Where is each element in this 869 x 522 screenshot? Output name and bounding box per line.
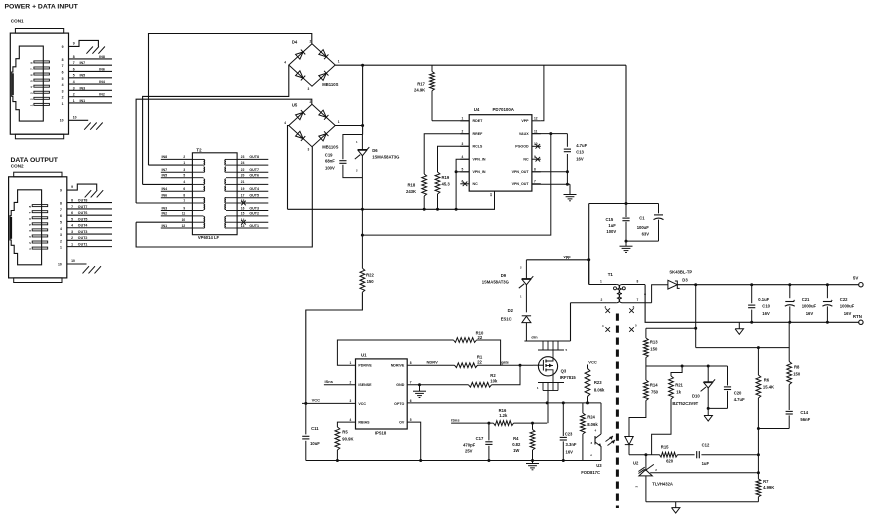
resistor R14 [644, 380, 649, 401]
svg-text:NDRIVE: NDRIVE [391, 364, 405, 368]
wire T1 pin7 [622, 302, 652, 304]
svg-text:VPP: VPP [521, 119, 529, 123]
svg-text:OUT3: OUT3 [78, 230, 88, 234]
svg-text:R6: R6 [764, 377, 770, 382]
T2 pin 12 wire [161, 227, 193, 229]
svg-text:8: 8 [410, 361, 412, 365]
svg-text:10: 10 [71, 259, 75, 263]
chassis ground [95, 266, 102, 273]
D4 diode 2-1 [319, 50, 327, 57]
wire node down to REF [757, 429, 759, 455]
svg-text:PDRIVE: PDRIVE [358, 364, 372, 368]
wire divider top [696, 322, 790, 347]
wire 5V rail [677, 284, 858, 286]
svg-text:C20: C20 [734, 391, 742, 396]
svg-text:3: 3 [308, 148, 310, 152]
T2 right pin wire 17 OUT5 [237, 197, 268, 199]
svg-text:4: 4 [284, 121, 286, 125]
U4 pin 7 VPN_OUT [532, 183, 541, 185]
svg-text:OUT2: OUT2 [249, 212, 259, 216]
svg-text:FOD817C: FOD817C [581, 470, 600, 475]
svg-text:1: 1 [71, 243, 73, 247]
Q3 source pin stubs [538, 382, 564, 384]
svg-text:68nF: 68nF [325, 159, 335, 164]
svg-text:OUT5: OUT5 [78, 217, 88, 221]
bridge rectifier U5 diamond [289, 104, 335, 146]
optocoupler U3 phototransistor [600, 403, 602, 434]
svg-text:8: 8 [71, 199, 73, 203]
svg-text:2: 2 [60, 239, 62, 243]
wire T1 pin7 up to D3 [652, 285, 668, 303]
svg-text:25V: 25V [465, 449, 473, 454]
svg-text:IN2: IN2 [99, 93, 105, 97]
svg-text:RBIAS: RBIAS [358, 421, 370, 425]
resistor R23 [587, 365, 589, 369]
bridge rectifier D4 diamond [289, 44, 335, 86]
U5 diode 3-1 [319, 134, 327, 141]
svg-text:2: 2 [601, 298, 603, 302]
contact pin 8 [34, 61, 50, 63]
svg-text:3: 3 [62, 89, 64, 93]
contact pin 2 [34, 97, 50, 99]
svg-text:C21: C21 [802, 297, 810, 302]
svg-text:1uF: 1uF [702, 461, 710, 466]
svg-text:OUT1: OUT1 [249, 224, 259, 228]
svg-text:2: 2 [62, 96, 64, 100]
wire opto collector branch [583, 402, 601, 404]
svg-text:R7: R7 [763, 479, 769, 484]
svg-text:IN7: IN7 [80, 61, 86, 65]
svg-text:PD70100A: PD70100A [493, 107, 515, 112]
svg-text:10: 10 [182, 218, 186, 222]
T2 pin 7 wire [136, 202, 192, 204]
pin 1 wire net IN1 [69, 102, 113, 104]
svg-text:7: 7 [410, 381, 412, 385]
T2 right pin wire 20 OUT6 [237, 177, 268, 179]
svg-text:11: 11 [534, 130, 538, 134]
svg-text:8: 8 [62, 58, 64, 62]
svg-text:3: 3 [73, 86, 75, 90]
svg-text:OUT7: OUT7 [78, 205, 88, 209]
capacitor C22 [826, 285, 828, 299]
svg-text:15.4K: 15.4K [763, 384, 774, 389]
wire R1 to gate [478, 364, 534, 366]
wire iSns branch to R16 [451, 422, 493, 424]
svg-text:15: 15 [241, 212, 245, 216]
svg-text:D4: D4 [292, 40, 298, 45]
T2 right pin wire 15 OUT2 [237, 215, 268, 217]
svg-text:100uF: 100uF [637, 225, 650, 230]
svg-text:OUT3: OUT3 [249, 206, 259, 210]
svg-text:R22: R22 [366, 272, 374, 277]
svg-text:OUT6: OUT6 [78, 211, 88, 215]
wire C12 to REF node [701, 454, 758, 456]
svg-text:C12: C12 [702, 442, 710, 447]
wire vpp to T1 pin1 [526, 259, 588, 261]
capacitor C10 [751, 285, 753, 304]
T1 secondary winding [619, 285, 622, 303]
svg-text:VCC: VCC [358, 402, 366, 406]
resistor R13 [645, 328, 647, 338]
wire main negative bus [288, 208, 496, 210]
wire opto cathode node [629, 454, 660, 456]
wire second rail R13 feed [646, 327, 696, 329]
svg-text:11: 11 [182, 212, 186, 216]
capacitor C17 [488, 423, 490, 440]
pin 6 wire net IN6 [69, 70, 113, 72]
svg-text:T2: T2 [196, 147, 202, 152]
T2 pin 4 wire [143, 183, 193, 185]
svg-text:D9: D9 [501, 273, 507, 278]
svg-text:OUT2: OUT2 [78, 236, 88, 240]
svg-text:iSns: iSns [451, 417, 460, 422]
svg-text:150: 150 [650, 346, 658, 351]
jack latch bar [12, 73, 14, 95]
svg-text:RREF: RREF [473, 132, 484, 136]
svg-text:ISns: ISns [325, 379, 334, 384]
svg-text:7: 7 [73, 61, 75, 65]
svg-text:45.3: 45.3 [442, 181, 451, 186]
ground [419, 385, 421, 391]
T1 polarity dot [622, 287, 625, 290]
svg-text:10: 10 [73, 116, 77, 120]
svg-text:MB110S: MB110S [322, 145, 338, 150]
svg-text:19: 19 [241, 187, 245, 191]
junction [361, 208, 364, 211]
svg-text:2: 2 [310, 100, 312, 104]
svg-text:vpp: vpp [564, 254, 572, 259]
svg-text:C19: C19 [325, 153, 333, 158]
resistor R5 [335, 427, 340, 450]
svg-text:1uF: 1uF [608, 223, 616, 228]
svg-text:8: 8 [73, 55, 75, 59]
junction [361, 124, 364, 127]
T2 pin 8 wire [161, 197, 193, 199]
svg-text:U2: U2 [633, 460, 639, 465]
svg-text:150: 150 [793, 371, 801, 376]
optocoupler U3 photodiode secondary [628, 435, 630, 437]
U4 NC X marks [463, 182, 468, 187]
junction [361, 64, 364, 67]
T2 winding stub lines [192, 158, 203, 160]
junction VAUX tee [361, 234, 364, 237]
capacitor C13 [566, 134, 568, 147]
U5 diode 4-3 [296, 131, 304, 138]
svg-text:IN3: IN3 [80, 86, 86, 90]
U4 pin 5 VPN_IN [460, 171, 469, 173]
svg-text:C11: C11 [311, 426, 319, 431]
svg-text:2: 2 [183, 155, 185, 159]
wire U1 pin7 GND [407, 384, 468, 386]
svg-text:C1: C1 [639, 215, 645, 220]
svg-text:3: 3 [308, 87, 310, 91]
contact pin 8 [32, 205, 48, 207]
capacitor C1 [658, 204, 660, 214]
svg-text:16: 16 [241, 206, 245, 210]
junction VCC/C11 [304, 402, 307, 405]
svg-text:1k: 1k [676, 389, 681, 394]
wire U2 anode rail [646, 501, 759, 503]
wire ground bus [306, 460, 601, 462]
capacitor C19 [339, 160, 346, 162]
resistor R15 [660, 452, 678, 457]
contact pin 3 [32, 235, 48, 237]
wire U4 pin2 to R18 [424, 134, 469, 174]
pin 7 wire net OUT7 [67, 208, 112, 210]
capacitor C21 [789, 285, 791, 299]
svg-text:10: 10 [58, 262, 62, 266]
svg-text:7: 7 [60, 208, 62, 212]
contact pin 4 [34, 85, 50, 87]
svg-text:4: 4 [462, 155, 464, 159]
svg-text:1: 1 [338, 60, 340, 64]
svg-text:16V: 16V [566, 449, 574, 454]
transistor Q3 IRF7815 [538, 349, 564, 351]
svg-text:C10: C10 [762, 304, 770, 309]
wire R14 to photodiode [629, 401, 646, 435]
U4 pin 2 RREF [460, 133, 469, 135]
capacitor C15 [625, 204, 627, 218]
svg-text:7: 7 [637, 298, 639, 302]
svg-text:8: 8 [534, 168, 536, 172]
U4 pin 3 RCLS [460, 145, 469, 147]
U4 pin 13 bottom stub [494, 191, 496, 209]
svg-text:100V: 100V [325, 166, 335, 171]
pin 3 wire net IN3 [69, 89, 113, 91]
svg-text:9: 9 [73, 42, 75, 46]
svg-text:D2: D2 [508, 308, 514, 313]
T2 right pin wire 23 OUT8 [237, 158, 268, 160]
svg-text:R14: R14 [650, 383, 658, 388]
svg-text:OUT7: OUT7 [249, 168, 259, 172]
svg-text:3: 3 [350, 399, 352, 403]
svg-text:C22: C22 [840, 297, 848, 302]
wire C19/D6 frame [343, 135, 363, 160]
svg-text:5: 5 [462, 168, 464, 172]
svg-text:750: 750 [651, 390, 659, 395]
contact pin 7 [32, 211, 48, 213]
svg-text:C15: C15 [606, 217, 614, 222]
capacitor C11 [305, 403, 307, 434]
pin 5 wire net IN5 [69, 77, 113, 79]
ground [625, 241, 627, 246]
T2 pin 1 wire [149, 164, 193, 166]
svg-text:9: 9 [62, 45, 64, 49]
svg-text:TLVH432A: TLVH432A [652, 481, 673, 486]
svg-text:SK43BL-TP: SK43BL-TP [669, 269, 692, 274]
svg-text:8.06k: 8.06k [594, 387, 605, 392]
svg-text:1: 1 [600, 280, 602, 284]
svg-text:620: 620 [666, 458, 674, 463]
svg-text:24: 24 [241, 161, 245, 165]
D4 diode 4-2 [296, 52, 304, 59]
wire T1 pin8 to lower rail [645, 285, 859, 323]
svg-text:U5: U5 [292, 103, 298, 108]
wire U2 REF [650, 472, 758, 474]
svg-text:CON1: CON1 [11, 19, 24, 24]
wire CON side to D4 top bus [149, 34, 312, 166]
wire R6/C14 bottom node [758, 428, 789, 430]
contact pin 3 [34, 91, 50, 93]
pin 10 wire [67, 263, 87, 265]
svg-text:RDET: RDET [473, 119, 484, 123]
wire T1 pin2 [571, 302, 617, 304]
U4 pin 10 PGOOD [532, 145, 541, 147]
wire U4 pin11 VAUX [532, 133, 568, 135]
pin 2 wire net IN2 [69, 96, 113, 98]
svg-text:3: 3 [183, 168, 185, 172]
svg-text:1W: 1W [513, 448, 519, 453]
svg-text:drn: drn [531, 336, 538, 340]
svg-text:OUT6: OUT6 [249, 174, 259, 178]
wire U1 pin8 NDRIVE [407, 364, 454, 366]
T2 left windings [204, 159, 205, 165]
U4 pin 6 NC [460, 183, 469, 185]
svg-text:R15: R15 [661, 444, 669, 449]
svg-text:1: 1 [338, 120, 340, 124]
resistor R24 [582, 403, 584, 413]
capacitor C12 [696, 451, 698, 458]
svg-text:IN7: IN7 [162, 168, 168, 172]
T2 pin 5 wire [161, 177, 193, 179]
svg-text:2: 2 [350, 381, 352, 385]
svg-text:6: 6 [73, 67, 75, 71]
svg-text:243K: 243K [406, 189, 416, 194]
wire D9 to D2 [525, 285, 527, 313]
svg-text:150: 150 [367, 279, 375, 284]
svg-text:R5: R5 [342, 429, 348, 434]
wire R13 node [646, 365, 728, 367]
wire U1 pin6 OPTO [407, 402, 583, 404]
svg-text:23: 23 [241, 155, 245, 159]
pin 5 wire net OUT5 [67, 220, 112, 222]
svg-text:CON2: CON2 [11, 164, 24, 169]
wire vertical D4/U5 outputs [362, 65, 364, 134]
T2 right pin wire 18 [237, 202, 268, 204]
svg-text:5V: 5V [853, 276, 858, 281]
zener diode D10 [707, 366, 709, 382]
svg-text:VP6014 LF: VP6014 LF [198, 235, 220, 240]
svg-text:63V: 63V [642, 232, 650, 237]
ground [532, 461, 534, 464]
svg-text:21: 21 [241, 180, 245, 184]
svg-text:VAUX: VAUX [519, 132, 529, 136]
svg-text:22: 22 [241, 168, 245, 172]
wire T1 pin8 [622, 284, 645, 286]
svg-text:1: 1 [62, 102, 64, 106]
Q3 drain pin stubs [542, 341, 544, 350]
svg-text:ES1C: ES1C [501, 317, 512, 322]
wire C15/C1 top rail [589, 203, 659, 205]
U4 pin 1 RDET [460, 120, 469, 122]
U4 pin 8 VPN_OUT [532, 171, 541, 173]
svg-text:BZT52C3V9T: BZT52C3V9T [672, 401, 698, 406]
svg-text:7: 7 [71, 205, 73, 209]
svg-text:POWER + DATA INPUT: POWER + DATA INPUT [5, 3, 79, 10]
svg-text:PGOOD: PGOOD [515, 145, 529, 149]
svg-text:4: 4 [60, 227, 62, 231]
contact pin 1 [32, 247, 48, 249]
diode D2 [522, 315, 531, 317]
svg-text:1: 1 [73, 99, 75, 103]
transformer T2 body [192, 153, 237, 235]
svg-text:4: 4 [73, 80, 75, 84]
T2 right pin wire 16 OUT3 [237, 210, 268, 212]
T2 unused pin X marks [241, 201, 246, 206]
pin 4 wire net IN4 [69, 83, 113, 85]
svg-text:4: 4 [71, 224, 73, 228]
pin 4 wire net OUT4 [67, 227, 112, 229]
T1 primary winding [617, 285, 620, 303]
svg-text:IPS18: IPS18 [375, 431, 387, 436]
svg-text:24.9K: 24.9K [414, 88, 425, 93]
svg-text:4: 4 [62, 83, 64, 87]
svg-text:10: 10 [60, 119, 64, 123]
connector body [10, 33, 68, 134]
svg-text:OUT1: OUT1 [78, 243, 88, 247]
svg-text:8: 8 [637, 280, 639, 284]
svg-text:VPN_IN: VPN_IN [473, 158, 486, 162]
pin 10 wire [69, 119, 89, 121]
T2 right pin wire 21 [237, 183, 268, 185]
svg-text:VCC: VCC [312, 398, 321, 403]
U4 pin 11 VAUX [532, 133, 541, 135]
svg-text:3: 3 [462, 142, 464, 146]
svg-text:R8: R8 [794, 365, 800, 370]
svg-text:4.99K: 4.99K [763, 485, 774, 490]
T2 pin 10 wire [136, 221, 192, 223]
svg-text:17: 17 [241, 194, 245, 198]
T2 pin 3 wire [161, 171, 193, 173]
svg-text:U4: U4 [474, 107, 480, 112]
svg-text:IN6: IN6 [99, 67, 105, 71]
wire U5 left vertex to main bus [288, 126, 289, 210]
chassis ground [97, 190, 104, 197]
wire drain bar [524, 340, 570, 342]
svg-text:VPN_IN: VPN_IN [473, 170, 486, 174]
svg-text:Q3: Q3 [561, 369, 567, 374]
jack latch bar [10, 217, 12, 239]
chassis ground [98, 47, 105, 54]
U5 diode 2-1 [319, 110, 327, 117]
wire R16 node [514, 422, 548, 424]
wire T1 pin1 [588, 260, 590, 285]
svg-text:12: 12 [534, 117, 538, 121]
svg-text:1: 1 [350, 361, 352, 365]
svg-text:0.82: 0.82 [512, 442, 521, 447]
svg-text:10uF: 10uF [310, 441, 320, 446]
pin 8 wire net OUT8 [67, 202, 112, 204]
svg-text:IN2: IN2 [162, 212, 168, 216]
wire down to vpp node [588, 204, 590, 285]
diode D3 schottky [668, 280, 677, 289]
svg-text:IRF7815: IRF7815 [560, 375, 577, 380]
IC U1 IPS18 [356, 359, 408, 429]
svg-text:4: 4 [350, 418, 352, 422]
svg-text:NDRV: NDRV [427, 360, 439, 365]
svg-text:6: 6 [71, 211, 73, 215]
chassis ground [96, 123, 103, 130]
T2 pin 11 wire [161, 215, 193, 217]
contact pin 5 [32, 223, 48, 225]
svg-text:IN4: IN4 [99, 80, 105, 84]
svg-text:7: 7 [534, 180, 536, 184]
svg-text:1000uF: 1000uF [840, 304, 855, 309]
IC U4 PD70100A [469, 115, 532, 191]
svg-text:IN4: IN4 [162, 187, 168, 191]
T2 right pin wire 19 OUT4 [237, 190, 268, 192]
svg-text:IN5: IN5 [162, 174, 168, 178]
